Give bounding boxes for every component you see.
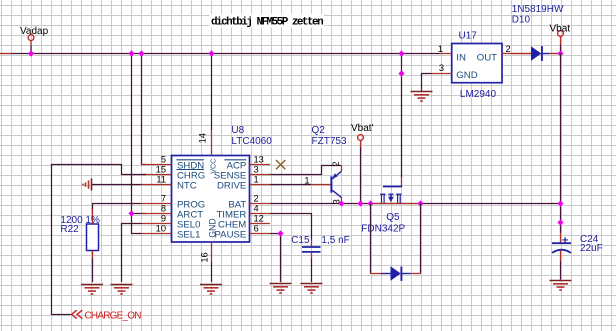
svg-text:FZT753: FZT753: [312, 136, 347, 147]
wire PAUSE to ground: [270, 234, 281, 283]
U8 pin 1 (DRIVE) stub: [250, 184, 271, 186]
svg-text:U17: U17: [459, 30, 478, 41]
wire PROG to R22: [93, 204, 142, 210]
svg-text:Q5: Q5: [386, 212, 400, 223]
svg-text:LTC4060: LTC4060: [231, 136, 272, 147]
transistor Q5 source/drain pins on BAT row: [371, 203, 421, 205]
wire U8 pin14 VCC riser: [211, 54, 213, 131]
svg-text:1: 1: [438, 44, 443, 54]
wire DRIVE to Q2 base: [270, 184, 311, 186]
U8 SHDN underline: [177, 169, 205, 171]
svg-text:7: 7: [161, 194, 166, 204]
svg-text:IN: IN: [456, 52, 466, 63]
power port Vadap: [28, 35, 34, 41]
transistor Q5 middle leg with body arrow: [390, 194, 392, 197]
svg-text:16: 16: [200, 252, 210, 262]
U8 pin 3 (SENSE) stub: [250, 174, 271, 176]
capacitor C24 bottom plate (arc): [552, 250, 571, 253]
node junction ARCT riser-rail: [128, 50, 134, 56]
wire CHRG to CHARGE_ON (jog + riser): [52, 165, 147, 315]
node junction Q5 right leg-BAT: [417, 200, 423, 206]
wire Q5 body diode loop left: [370, 204, 372, 274]
wire SENSE to Q2 emitter (staircase): [270, 166, 342, 175]
svg-text:2: 2: [331, 161, 341, 166]
wire U17 GND to ground: [422, 74, 432, 92]
U8 pin 12 (CHEM) stub: [250, 223, 271, 225]
svg-text:13: 13: [254, 155, 264, 165]
wire Vbat' riser: [360, 148, 362, 204]
U8 pin 16 stub: [211, 242, 213, 262]
wire NTC to ground: [92, 184, 142, 186]
op-amp U8 body (LTC4060 box): [172, 156, 250, 243]
note dichtbij NFM55P zetten: [210, 14, 325, 28]
wire U17 OUT to D10 (red net): [512, 53, 531, 55]
port CHARGE_ON chevron: [72, 310, 77, 318]
node junction Vbat'-BAT: [357, 200, 363, 206]
svg-text:1: 1: [304, 175, 309, 185]
ground C24: [550, 280, 572, 282]
svg-text:GND: GND: [208, 218, 218, 238]
U8 SHDN overline: [177, 159, 205, 161]
wire Vbat port riser: [560, 45, 562, 54]
svg-text:11: 11: [156, 175, 166, 185]
svg-text:12: 12: [254, 214, 264, 224]
svg-text:9: 9: [161, 214, 166, 224]
svg-text:3: 3: [439, 63, 444, 73]
U8 pin 10 (SEL1) stub: [142, 233, 172, 235]
transistor Q5 channel leg 1: [381, 194, 383, 203]
wire SEL0 to ground: [122, 224, 142, 283]
wire BAT row: [270, 203, 561, 205]
node junction Vbat-BAT row: [557, 200, 563, 206]
svg-text:OUT: OUT: [477, 52, 497, 63]
capacitor C15 top lead: [311, 240, 313, 247]
capacitor C24 top lead: [560, 233, 562, 243]
no-connect X on pin 13: [276, 160, 285, 169]
svg-text:CHARGE_ON: CHARGE_ON: [85, 310, 142, 321]
wire C15 to ground: [311, 259, 313, 283]
ground R22: [81, 284, 103, 286]
transistor Q2 base bar: [330, 176, 332, 192]
wire Vadap port riser: [30, 46, 32, 54]
svg-text:SEL1: SEL1: [177, 229, 200, 240]
svg-text:14: 14: [198, 133, 208, 143]
U8 pin 2 (BAT) stub: [250, 203, 271, 205]
U8 pin 6 (PAUSE) stub: [250, 233, 271, 235]
svg-text:2: 2: [254, 194, 259, 204]
node junction Q5 left leg-BAT: [367, 200, 373, 206]
capacitor C24 bottom lead: [560, 250, 562, 261]
U8 ACP overline: [225, 159, 247, 161]
node junction SHDN riser-rail: [138, 50, 144, 56]
node stray junction on gate riser: [398, 70, 404, 76]
node junction VCC riser-rail: [208, 50, 214, 56]
ground PAUSE: [270, 283, 292, 285]
svg-text:5: 5: [161, 155, 166, 165]
svg-text:FDN342P: FDN342P: [361, 223, 405, 234]
diode Q5 body diode cathode lead: [402, 273, 411, 275]
wire Vbat vertical: [560, 54, 562, 234]
capacitor C24 top plate: [552, 242, 571, 244]
ground SEL0: [111, 284, 133, 286]
diode Q5 body diode: [391, 266, 401, 280]
transistor Q2 emitter: [332, 171, 341, 179]
svg-text:PAUSE: PAUSE: [214, 229, 246, 240]
transistor Q5 gate stub: [401, 177, 403, 187]
svg-text:dichtbij NFM55P zetten: dichtbij NFM55P zetten: [211, 17, 323, 29]
node junction Vadap-rail: [28, 50, 34, 56]
svg-text:8: 8: [161, 204, 166, 214]
U8 pin 15 (CHRG) stub: [142, 174, 172, 176]
U8 pin 5 (SHDN) stub: [142, 164, 172, 166]
capacitor C15 plates: [302, 246, 321, 248]
wire R22 to ground: [92, 259, 94, 283]
capacitor C24 plus sign: [564, 237, 566, 242]
transistor Q2 collector stub: [341, 198, 343, 204]
svg-text:U8: U8: [231, 125, 244, 136]
ground U17: [411, 91, 433, 93]
transistor Q2 collector: [332, 190, 341, 197]
svg-text:C15: C15: [291, 235, 310, 246]
svg-text:6: 6: [254, 224, 259, 234]
wire SHDN riser: [142, 54, 147, 165]
U8 pin 7 (PROG) stub: [142, 203, 172, 205]
node junction ARCT riser: [128, 210, 134, 216]
svg-text:VCC: VCC: [208, 159, 217, 174]
svg-text:D10: D10: [512, 14, 531, 25]
node junction Vbat-rail: [557, 50, 563, 56]
svg-text:NTC: NTC: [177, 180, 197, 191]
wire ARCT/SEL1 riser: [132, 54, 142, 234]
svg-text:LM2940: LM2940: [460, 89, 497, 100]
ground NTC (rotated left): [91, 179, 93, 191]
wire TIMER to C15: [270, 214, 312, 240]
capacitor C15 bottom lead: [311, 252, 313, 259]
svg-text:GND: GND: [456, 70, 477, 81]
svg-text:Q2: Q2: [312, 125, 326, 136]
svg-text:1N5819HW: 1N5819HW: [512, 4, 564, 15]
node junction Q2 collector-BAT: [338, 200, 344, 206]
wire U8 pin16 to ground: [211, 262, 213, 282]
wire Q5 body diode loop right: [420, 204, 422, 274]
wire top rail Vadap net (red left stub): [0, 53, 12, 55]
svg-text:2: 2: [506, 44, 511, 54]
svg-text:DRIVE: DRIVE: [217, 180, 246, 191]
node stray junction on Vbat vertical: [557, 219, 563, 225]
transistor Q2 base stub: [311, 184, 330, 186]
transistor Q5 gate bar: [383, 186, 402, 188]
svg-text:4: 4: [254, 204, 259, 214]
svg-text:3: 3: [254, 165, 259, 175]
wire top rail Vadap net (horizontal): [12, 53, 440, 55]
wire D10 to Vbat (red net): [550, 53, 561, 55]
resistor R22 body: [87, 224, 99, 251]
regulator U17 body: [452, 44, 502, 83]
U8 pin 13 (ACP) stub: [250, 164, 271, 166]
diode D10 cathode lead: [543, 53, 550, 55]
U8 pin 11 (NTC) stub: [142, 184, 172, 186]
diode D10: [531, 46, 541, 61]
node junction gate riser-rail: [398, 50, 404, 56]
U8 pin 9 (SEL0) stub: [142, 223, 172, 225]
svg-text:1: 1: [254, 175, 259, 185]
U8 pin 4 (TIMER) stub: [250, 213, 271, 215]
wire C24 to ground: [560, 261, 562, 280]
transistor Q5 channel leg 2: [397, 194, 399, 203]
ground C15: [301, 283, 323, 285]
U17 pin 2 stub: [502, 53, 512, 55]
svg-text:1,5 nF: 1,5 nF: [321, 235, 349, 246]
resistor R22 top lead: [92, 209, 94, 224]
svg-text:R22: R22: [60, 224, 79, 235]
U8 pin 14 stub: [211, 130, 213, 156]
U8 pin 8 (ARCT) stub: [142, 213, 172, 215]
wire ARCT branch: [132, 213, 147, 215]
power port Vbat': [358, 135, 364, 141]
U17 pin 3 stub: [432, 73, 452, 75]
power port Vbat: [558, 31, 564, 37]
svg-text:10: 10: [156, 224, 166, 234]
svg-text:Vbat: Vbat: [550, 24, 571, 35]
transistor Q2 emitter stub: [341, 166, 343, 172]
diode Q5 body diode anode lead: [371, 273, 382, 275]
U17 pin 1 stub: [440, 53, 452, 55]
svg-text:22uF: 22uF: [580, 243, 603, 254]
ground pin16: [200, 284, 222, 286]
resistor R22 bottom lead: [92, 251, 94, 259]
wire Q5 gate riser: [401, 54, 403, 178]
svg-text:Vbat': Vbat': [351, 123, 374, 134]
svg-text:Vadap: Vadap: [20, 26, 49, 37]
node junction PAUSE corner: [277, 230, 283, 236]
svg-text:15: 15: [156, 165, 166, 175]
